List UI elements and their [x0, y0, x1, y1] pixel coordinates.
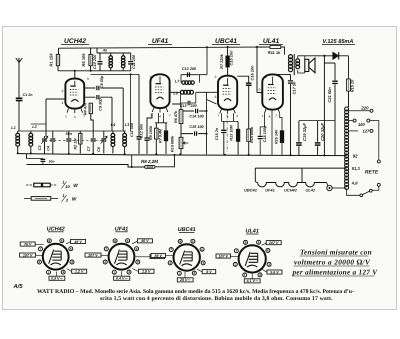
- svg-text:WATT RADIO – Mod. Monello seri: WATT RADIO – Mod. Monello serie Asia. So…: [37, 288, 354, 295]
- svg-text:5: 5: [192, 239, 194, 243]
- svg-text:4: 4: [236, 114, 238, 118]
- svg-text:R10 680k: R10 680k: [170, 135, 174, 152]
- svg-text:Tensioni misurate con: Tensioni misurate con: [300, 248, 372, 257]
- capacitor C17 5n: [290, 75, 292, 156]
- capacitor C11 200: [130, 53, 132, 71]
- resistor R5 10k: [90, 48, 92, 71]
- wire AVC line: [91, 73, 139, 75]
- svg-text:7: 7: [105, 247, 107, 251]
- svg-text:6: 6: [70, 247, 72, 251]
- svg-text:3: 3: [87, 77, 89, 81]
- svg-text:0,4 V∼: 0,4 V∼: [116, 277, 128, 281]
- svg-text:C16 10n: C16 10n: [250, 65, 255, 81]
- svg-text:UBC41: UBC41: [244, 187, 257, 192]
- svg-text:V.125 85mA: V.125 85mA: [323, 39, 354, 45]
- svg-text:C21 50n: C21 50n: [327, 87, 332, 103]
- svg-text:UL41: UL41: [306, 187, 316, 192]
- svg-text:scita 1,5 watt con 4 percento: scita 1,5 watt con 4 percento di distors…: [100, 295, 333, 302]
- svg-text:R6 47k: R6 47k: [174, 110, 178, 123]
- svg-text:107 V: 107 V: [219, 254, 229, 258]
- wire bus drop to R8: [131, 155, 133, 167]
- potentiometer dark: [165, 123, 167, 154]
- svg-text:C11 200: C11 200: [132, 54, 136, 69]
- svg-text:C10 200: C10 200: [93, 54, 97, 69]
- svg-text:5: 5: [61, 239, 63, 243]
- svg-text:4: 4: [62, 101, 64, 105]
- capacitor C12b 200: [188, 72, 190, 77]
- svg-text:C16 2n: C16 2n: [215, 127, 219, 140]
- wire winding top: [347, 106, 349, 108]
- svg-text:4: 4: [193, 271, 195, 275]
- svg-text:C18 100p: C18 100p: [263, 125, 267, 142]
- resistor R2 1M: [79, 131, 81, 154]
- svg-text:R9 100k: R9 100k: [149, 125, 153, 140]
- wire UL41 anode: [273, 73, 291, 75]
- resistor R8 2,2M: [145, 165, 155, 168]
- IFT2 coil L8: [180, 90, 184, 94]
- capacitor C13 200: [180, 92, 195, 103]
- svg-text:1: 1: [150, 114, 152, 118]
- svg-text:C20 32µF: C20 32µF: [320, 122, 325, 141]
- svg-text:51,3: 51,3: [352, 166, 361, 171]
- svg-text:2: 2: [169, 261, 171, 265]
- svg-text:207 V: 207 V: [268, 241, 279, 245]
- svg-text:voltmetro a 20000 Ω/V: voltmetro a 20000 Ω/V: [294, 258, 371, 267]
- svg-text:1,2 V: 1,2 V: [75, 270, 84, 274]
- svg-text:R8 2,2M: R8 2,2M: [141, 159, 158, 164]
- svg-text:C12 200: C12 200: [182, 67, 197, 71]
- capacitor C4: [52, 131, 54, 154]
- svg-text:1: 1: [244, 273, 246, 277]
- wire heater drop 1: [255, 168, 257, 182]
- svg-text:2: 2: [234, 263, 236, 267]
- svg-text:2: 2: [150, 75, 152, 79]
- resistor R1 15k: [57, 48, 60, 71]
- wire UBC41 pins: [220, 109, 236, 114]
- svg-text:UL41: UL41: [263, 38, 280, 45]
- resistor R9 100k: [155, 123, 157, 154]
- svg-text:UF41: UF41: [152, 38, 169, 45]
- svg-text:4n: 4n: [102, 49, 108, 53]
- speaker: [305, 59, 309, 71]
- wire cathode to R16: [280, 113, 282, 155]
- output transformer core: [293, 54, 295, 75]
- resistor R16 140: [280, 131, 283, 143]
- wire lower bus left + C6b: [27, 154, 145, 167]
- svg-text:6: 6: [267, 249, 269, 253]
- svg-text:RETE: RETE: [365, 170, 379, 176]
- svg-text:127: 127: [362, 129, 370, 134]
- tap 220: [349, 110, 370, 112]
- svg-text:50n: 50n: [66, 132, 73, 136]
- svg-text:0,9 V∼: 0,9 V∼: [51, 277, 63, 281]
- tube UF41: [150, 74, 169, 108]
- legend resistor small: [26, 184, 57, 186]
- capacitor C6b 50n: [41, 159, 46, 161]
- tube UCH42: [65, 79, 84, 109]
- potentiometer R10: [180, 124, 182, 155]
- wire under UF41: [155, 113, 167, 123]
- svg-text:UCH42: UCH42: [47, 226, 65, 232]
- svg-text:28 V∼: 28 V∼: [179, 278, 191, 282]
- svg-text:92: 92: [353, 154, 358, 159]
- capacitor C9 50p: [84, 97, 112, 131]
- svg-text:4,1 V∼: 4,1 V∼: [245, 279, 258, 283]
- svg-text:UL41: UL41: [245, 229, 258, 235]
- svg-text:UBC41: UBC41: [178, 227, 196, 233]
- svg-text:A/5: A/5: [12, 283, 23, 290]
- svg-text:200: 200: [190, 104, 198, 108]
- wire UL41 pin4: [271, 114, 273, 155]
- resistor R7b 220k: [227, 46, 229, 48]
- svg-text:per alimentazione a 127 V: per alimentazione a 127 V: [292, 268, 379, 277]
- svg-text:160: 160: [358, 122, 366, 127]
- svg-text:8: 8: [48, 239, 50, 243]
- antenna: [16, 58, 22, 98]
- heater chain: [258, 183, 327, 187]
- capacitor C5 50n: [68, 131, 70, 154]
- svg-text:6: 6: [201, 247, 203, 251]
- wire osc verticals: [122, 88, 124, 131]
- coil L1: [17, 131, 19, 154]
- svg-text:R13 10M: R13 10M: [229, 124, 233, 140]
- wire main bus: [18, 154, 347, 156]
- svg-text:W: W: [73, 183, 78, 189]
- svg-text:2: 2: [265, 75, 267, 79]
- svg-text:1,8 V: 1,8 V: [142, 270, 151, 274]
- svg-text:R14 680k: R14 680k: [250, 126, 254, 143]
- svg-text:6: 6: [215, 95, 217, 99]
- wire HT line: [305, 56, 349, 79]
- svg-text:207 V: 207 V: [87, 253, 98, 257]
- capacitor C7: [92, 142, 94, 154]
- svg-text:5: 5: [127, 239, 129, 243]
- svg-text:2: 2: [39, 260, 41, 264]
- IFT1 coil L6: [122, 53, 124, 71]
- svg-text:89 V: 89 V: [155, 254, 163, 258]
- svg-text:C17 5n: C17 5n: [291, 81, 296, 94]
- svg-text:5: 5: [258, 240, 260, 244]
- capacitor C16b 10n: [237, 76, 249, 129]
- svg-text:4: 4: [74, 115, 76, 119]
- svg-text:R15 20: R15 20: [350, 79, 355, 92]
- svg-text:1: 1: [65, 115, 67, 119]
- capacitor C18 100p: [260, 113, 264, 155]
- output transformer secondary: [296, 59, 300, 63]
- coil L3: [124, 131, 126, 154]
- svg-text:R2 1M: R2 1M: [73, 138, 77, 150]
- wire heater drop 2: [301, 168, 303, 182]
- diode V125: [333, 52, 339, 59]
- svg-text:76 V: 76 V: [24, 242, 32, 246]
- wire rail to output transformer: [281, 47, 285, 55]
- svg-text:C15 10n: C15 10n: [229, 50, 234, 66]
- wire 51,3 line: [255, 167, 346, 169]
- wire grid bus under IFT1: [58, 70, 131, 72]
- dashed gang line: [45, 140, 104, 142]
- tap 127: [349, 130, 358, 132]
- svg-text:R1 15k: R1 15k: [49, 53, 54, 67]
- svg-text:R4 47k: R4 47k: [83, 102, 88, 115]
- coil L2: [30, 131, 32, 154]
- tube UBC41: [218, 76, 237, 110]
- svg-text:2: 2: [215, 75, 217, 79]
- resistor R14 680k: [247, 129, 251, 141]
- svg-text:R11 1k: R11 1k: [268, 50, 281, 55]
- capacitor C11b 50n: [138, 74, 140, 154]
- svg-text:R16 140: R16 140: [275, 129, 279, 144]
- svg-text:R7 0,4M: R7 0,4M: [159, 128, 163, 143]
- wire drop to detector: [207, 92, 217, 154]
- svg-text:C9 50p: C9 50p: [99, 98, 103, 111]
- svg-text:1: 1: [178, 271, 180, 275]
- svg-text:L1: L1: [11, 125, 16, 130]
- svg-text:3: 3: [202, 261, 204, 265]
- svg-text:10: 10: [65, 184, 70, 189]
- junction dots bus: [17, 152, 19, 154]
- capacitor C8 50p: [84, 87, 123, 89]
- pilot lamp: [327, 183, 328, 186]
- capacitor C21 50n: [324, 63, 335, 155]
- svg-text:UCH42: UCH42: [284, 187, 298, 192]
- svg-text:3: 3: [71, 260, 73, 264]
- IFT2 drop: [206, 46, 208, 48]
- wire UL41 pins: [265, 109, 280, 113]
- svg-text:8: 8: [245, 241, 247, 245]
- svg-text:C15 100: C15 100: [189, 125, 204, 129]
- RETE terminal top: [377, 160, 380, 163]
- resistor R13 10M: [237, 121, 239, 154]
- svg-text:UF41: UF41: [115, 226, 128, 232]
- dash-dot line: [226, 115, 228, 153]
- svg-text:7: 7: [40, 247, 42, 251]
- svg-text:4,8: 4,8: [351, 181, 358, 186]
- svg-text:6: 6: [62, 89, 64, 93]
- capacitor C15 100: [181, 133, 207, 135]
- svg-text:UF41: UF41: [265, 187, 275, 192]
- output transformer primary: [289, 55, 293, 59]
- svg-text:6: 6: [136, 247, 138, 251]
- svg-text:46 V: 46 V: [140, 239, 149, 243]
- svg-text:C13: C13: [180, 104, 188, 108]
- wire B+ top rail: [59, 47, 271, 48]
- wire electrolytic top tie: [299, 120, 335, 122]
- svg-text:5,6 V: 5,6 V: [270, 270, 279, 274]
- svg-text:4: 4: [159, 115, 161, 119]
- autotransformer winding: [345, 107, 349, 111]
- capacitor C12 50n: [147, 113, 152, 154]
- svg-text:7: 7: [170, 248, 172, 252]
- svg-text:8: 8: [114, 239, 116, 243]
- wire UCH42 grid to C3: [46, 99, 66, 136]
- svg-text:8: 8: [179, 240, 181, 244]
- svg-text:8 V: 8 V: [206, 270, 212, 274]
- wire L2 top right: [31, 123, 46, 125]
- wire under UBC41: [222, 113, 239, 121]
- svg-text:220: 220: [360, 105, 369, 110]
- tube UL41: [262, 74, 283, 109]
- legend resistor big: [24, 197, 58, 199]
- svg-text:R7 220k: R7 220k: [219, 53, 224, 69]
- IFT1 coil L5: [110, 53, 112, 71]
- svg-text:W: W: [72, 197, 77, 203]
- svg-text:1: 1: [262, 114, 264, 118]
- wire R8 to bus: [155, 155, 175, 167]
- svg-text:6: 6: [259, 88, 261, 92]
- capacitor C16 2n: [223, 121, 225, 154]
- svg-text:1: 1: [48, 270, 50, 274]
- capacitor C10 200: [99, 53, 101, 71]
- switch: [347, 189, 360, 196]
- variable capacitor C6: [103, 131, 105, 154]
- svg-text:UBC41: UBC41: [215, 38, 237, 45]
- wire diode output: [323, 56, 325, 155]
- resistor R4 47k: [89, 103, 92, 113]
- wire UF41 pins: [152, 108, 168, 113]
- wire IFT1 top line: [97, 48, 131, 53]
- svg-text:C19 32µF: C19 32µF: [302, 122, 307, 141]
- capacitor C14 100: [183, 110, 207, 112]
- svg-text:7: 7: [169, 114, 171, 118]
- svg-text:C1 2n: C1 2n: [22, 93, 33, 97]
- svg-text:4: 4: [269, 115, 271, 119]
- svg-text:3: 3: [137, 260, 139, 264]
- wire UCH42 pins: [67, 108, 83, 113]
- svg-text:107 V: 107 V: [23, 253, 33, 257]
- svg-text:C8 50p: C8 50p: [100, 75, 104, 88]
- capacitor C1 2n: [16, 98, 23, 100]
- resistor R15 20: [347, 79, 351, 91]
- tap 160: [349, 120, 353, 122]
- svg-text:7: 7: [217, 114, 219, 118]
- svg-text:C14 100: C14 100: [189, 114, 204, 118]
- variable capacitor C3: [44, 136, 46, 154]
- svg-text:UCH42: UCH42: [64, 38, 86, 45]
- svg-text:R5 10k: R5 10k: [81, 53, 86, 67]
- RETE terminal bottom: [377, 183, 380, 186]
- svg-text:50n: 50n: [49, 159, 55, 163]
- svg-text:4: 4: [128, 270, 130, 274]
- svg-text:4: 4: [259, 273, 261, 277]
- svg-text:C12 50n: C12 50n: [140, 123, 144, 138]
- resistor R11 1k: [270, 46, 281, 49]
- wire drop UL41 grid: [256, 46, 258, 48]
- svg-text:46 V: 46 V: [73, 240, 82, 244]
- svg-text:3: 3: [268, 263, 270, 267]
- wire input top line: [18, 130, 126, 132]
- svg-text:4: 4: [62, 270, 64, 274]
- resistor R6 47k: [172, 104, 181, 110]
- electrolytic C19 32uF: [298, 121, 300, 156]
- svg-text:2: 2: [104, 260, 106, 264]
- svg-text:7: 7: [235, 249, 237, 253]
- electrolytic C20 32uF: [317, 121, 319, 156]
- svg-text:7: 7: [275, 114, 277, 118]
- svg-text:C11 50n: C11 50n: [130, 122, 134, 137]
- svg-text:1: 1: [113, 270, 115, 274]
- coil L4: [112, 131, 114, 154]
